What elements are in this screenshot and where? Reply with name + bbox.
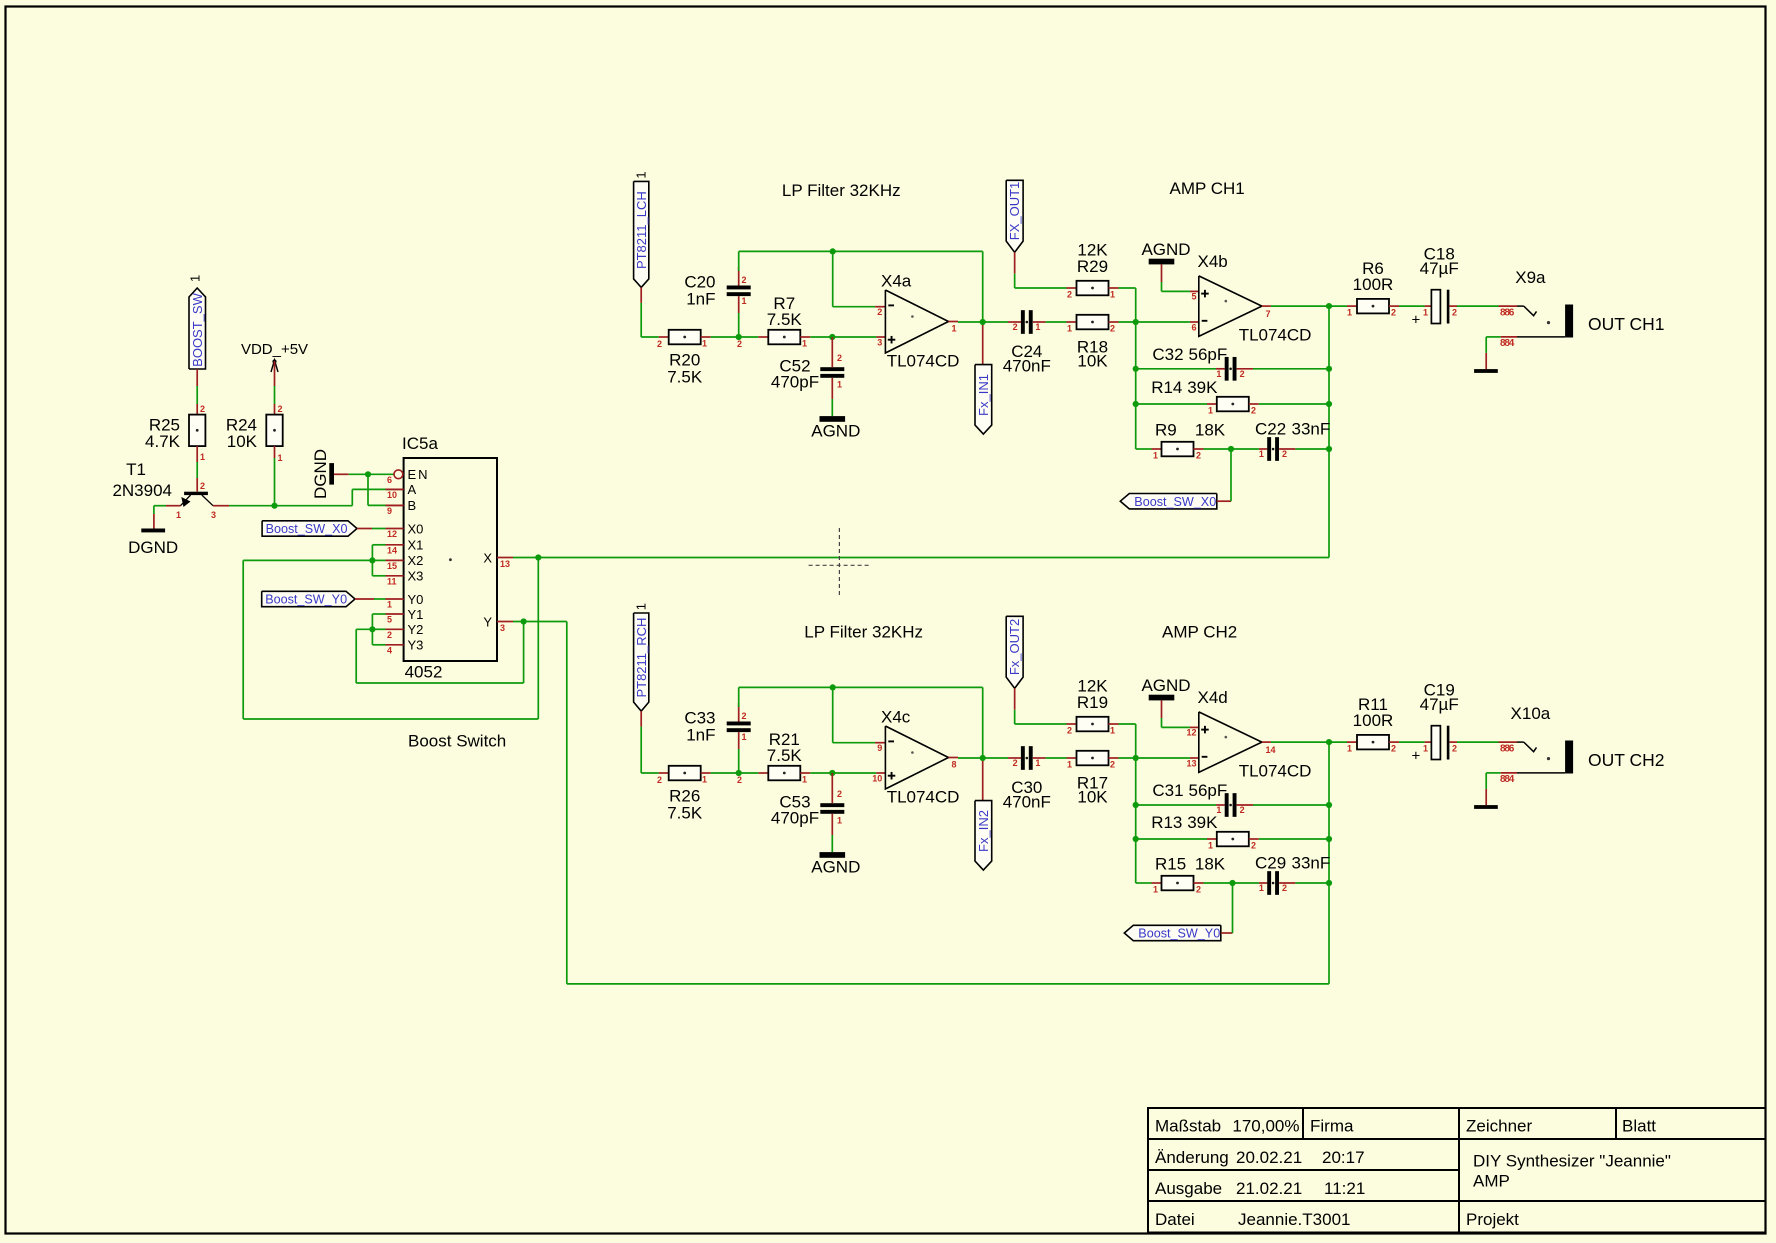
wire boost label — [1217, 500, 1231, 502]
ground DGND (T1) — [141, 529, 165, 533]
junction feedback tap — [830, 248, 836, 254]
svg-text:2: 2 — [737, 339, 742, 349]
svg-text:TL074CD: TL074CD — [887, 352, 960, 371]
wire jack to ground — [1485, 773, 1487, 789]
svg-text:1: 1 — [702, 775, 707, 785]
resistor R14 — [1217, 397, 1249, 412]
row R 18K / C 33nF — [1136, 882, 1152, 884]
title block — [1148, 1108, 1766, 1233]
row C 56pF — [1136, 804, 1216, 806]
svg-text:1: 1 — [1423, 744, 1428, 754]
wire FB left rail — [1135, 322, 1137, 449]
svg-text:2: 2 — [737, 775, 742, 785]
svg-text:12: 12 — [1186, 728, 1196, 738]
wire X2 loop from X output — [243, 559, 372, 561]
junction C52 tap — [829, 334, 835, 340]
svg-text:Y1: Y1 — [408, 607, 424, 622]
svg-text:T1: T1 — [126, 460, 146, 479]
svg-text:DGND: DGND — [311, 449, 330, 499]
svg-text:100R: 100R — [1353, 711, 1394, 730]
svg-text:Maßstab: Maßstab — [1155, 1117, 1221, 1136]
svg-text:2: 2 — [1391, 308, 1396, 318]
svg-text:2: 2 — [1282, 449, 1287, 459]
svg-text:A: A — [408, 482, 417, 497]
junction LP output node — [980, 755, 986, 761]
svg-text:X4a: X4a — [881, 272, 912, 291]
svg-text:R14: R14 — [1151, 378, 1182, 397]
svg-text:Y3: Y3 — [408, 638, 424, 653]
svg-text:AMP CH2: AMP CH2 — [1162, 622, 1237, 641]
jack lower contact — [1486, 336, 1501, 338]
svg-text:3: 3 — [211, 510, 216, 520]
net flag PT8211_RCH — [634, 613, 649, 711]
svg-text:12: 12 — [387, 529, 397, 539]
svg-text:Zeichner: Zeichner — [1466, 1117, 1532, 1136]
junction X2 tie — [369, 557, 375, 563]
svg-text:2: 2 — [200, 481, 205, 491]
svg-text:10K: 10K — [1077, 788, 1108, 807]
svg-text:3: 3 — [500, 623, 505, 633]
wire label to Y0 — [355, 598, 374, 600]
svg-text:Änderung: Änderung — [1155, 1148, 1229, 1167]
svg-text:X10a: X10a — [1511, 704, 1551, 723]
junction boost tap — [1228, 446, 1234, 452]
junction AMP output node — [1326, 739, 1332, 745]
svg-text:2: 2 — [1110, 760, 1115, 770]
wire Y output — [513, 621, 567, 623]
resistor R15 — [1162, 876, 1194, 891]
wire DGND to EN — [334, 473, 349, 475]
svg-text:DGND: DGND — [128, 538, 178, 557]
ground AGND — [820, 416, 846, 422]
svg-text:4: 4 — [387, 645, 392, 655]
svg-text:21.02.21: 21.02.21 — [1236, 1179, 1302, 1198]
svg-text:Boost_SW_X0: Boost_SW_X0 — [266, 522, 348, 536]
resistor R18 — [1077, 315, 1109, 330]
svg-text:1: 1 — [1259, 883, 1264, 893]
svg-text:Boost_SW_Y0: Boost_SW_Y0 — [1138, 927, 1220, 941]
svg-text:C31: C31 — [1152, 781, 1183, 800]
capacitor C24 — [1021, 310, 1025, 334]
svg-text:4.7K: 4.7K — [145, 432, 181, 451]
capacitor C20 — [727, 286, 751, 290]
svg-text:Projekt: Projekt — [1466, 1210, 1519, 1229]
svg-text:X0: X0 — [408, 521, 424, 536]
svg-text:1nF: 1nF — [686, 290, 715, 309]
wire AGND to plus — [1161, 700, 1163, 718]
svg-text:100R: 100R — [1353, 275, 1394, 294]
svg-text:11: 11 — [387, 576, 397, 586]
svg-text:14: 14 — [387, 545, 397, 555]
svg-text:7.5K: 7.5K — [767, 746, 803, 765]
svg-text:VDD_+5V: VDD_+5V — [241, 341, 308, 358]
capacitor C30 — [1021, 746, 1025, 770]
svg-text:1: 1 — [1110, 290, 1115, 300]
svg-text:56pF: 56pF — [1189, 781, 1228, 800]
svg-text:33nF: 33nF — [1292, 420, 1331, 439]
svg-text:2: 2 — [1282, 883, 1287, 893]
op-amp X4c — [885, 726, 948, 789]
op-amp X4d — [1199, 712, 1262, 773]
svg-text:170,00%: 170,00% — [1232, 1117, 1299, 1136]
net label Boost_SW_X0 (boost tap) — [1120, 494, 1217, 509]
wire cap to rail — [738, 267, 740, 286]
wire X1/X2/X3 tie — [371, 545, 373, 576]
wire feedback to minus input — [832, 251, 834, 306]
svg-text:2: 2 — [1067, 726, 1072, 736]
svg-text:EN: EN — [408, 467, 430, 482]
wire opamp1 out — [949, 321, 959, 323]
svg-text:18K: 18K — [1195, 855, 1226, 874]
svg-text:Ausgabe: Ausgabe — [1155, 1179, 1222, 1198]
svg-text:Firma: Firma — [1310, 1117, 1354, 1136]
wire label to X0 — [357, 528, 372, 530]
connector jack X9a — [1499, 305, 1518, 307]
svg-text:+: + — [1412, 748, 1421, 765]
capacitor C18 (polarized) — [1431, 290, 1440, 324]
svg-text:LP Filter 32KHz: LP Filter 32KHz — [782, 181, 901, 200]
svg-text:Boost_SW_Y0: Boost_SW_Y0 — [265, 593, 347, 607]
ground (jack) — [1474, 369, 1498, 373]
net flag Fx_IN2 — [982, 761, 984, 801]
svg-text:2: 2 — [1240, 805, 1245, 815]
row R 39K — [1136, 838, 1207, 840]
net flag Fx_IN1 — [982, 325, 984, 365]
wire EN junction down to B — [367, 474, 369, 505]
svg-text:X3: X3 — [408, 569, 424, 584]
wire Y2 loop from Y output — [356, 628, 372, 630]
svg-text:BOOST_SW: BOOST_SW — [190, 292, 205, 366]
svg-text:DIY Synthesizer "Jeannie": DIY Synthesizer "Jeannie" — [1473, 1152, 1671, 1171]
op-amp X4b — [1199, 276, 1262, 337]
svg-text:5: 5 — [387, 615, 392, 625]
ground AGND — [820, 852, 846, 858]
svg-text:AGND: AGND — [1141, 676, 1190, 695]
connector jack X10a — [1499, 741, 1518, 743]
wire AGND to plus — [1161, 264, 1163, 282]
svg-text:Y0: Y0 — [408, 592, 424, 607]
svg-text:1: 1 — [1347, 744, 1352, 754]
wire T1 emitter to DGND — [166, 505, 181, 507]
wire — [831, 337, 833, 367]
svg-text:1: 1 — [1067, 324, 1072, 334]
svg-text:10: 10 — [872, 773, 882, 783]
svg-text:X1: X1 — [408, 538, 424, 553]
svg-text:B: B — [408, 498, 417, 513]
svg-text:18K: 18K — [1195, 421, 1226, 440]
svg-text:Blatt: Blatt — [1622, 1117, 1656, 1136]
svg-text:2: 2 — [837, 353, 842, 363]
svg-text:Boost_SW_X0: Boost_SW_X0 — [1134, 495, 1216, 509]
resistor R20 — [669, 330, 701, 345]
svg-text:47µF: 47µF — [1420, 259, 1459, 278]
wire R25 to T1 — [196, 446, 198, 462]
wire BOOST_SW to R25 — [196, 369, 198, 386]
net flag BOOST_SW — [189, 288, 206, 369]
svg-text:2: 2 — [1251, 841, 1256, 851]
svg-text:1: 1 — [702, 339, 707, 349]
svg-text:1: 1 — [188, 275, 203, 282]
svg-text:2: 2 — [1391, 744, 1396, 754]
svg-text:R19: R19 — [1077, 693, 1108, 712]
svg-text:2: 2 — [1196, 451, 1201, 461]
svg-text:OUT CH1: OUT CH1 — [1588, 314, 1665, 334]
svg-text:X9a: X9a — [1515, 268, 1546, 287]
svg-text:2: 2 — [877, 307, 882, 317]
wire opamp1 out — [949, 757, 959, 759]
svg-text:R15: R15 — [1155, 855, 1186, 874]
svg-text:13: 13 — [500, 559, 510, 569]
svg-text:Jeannie.T3001: Jeannie.T3001 — [1238, 1210, 1350, 1229]
wire FB right rail — [1328, 306, 1330, 557]
svg-text:470pF: 470pF — [771, 373, 819, 392]
wire feedback to minus input — [832, 687, 834, 742]
svg-text:56pF: 56pF — [1189, 345, 1228, 364]
resistor R7 — [768, 330, 800, 345]
svg-text:C22: C22 — [1255, 420, 1286, 439]
svg-text:13: 13 — [1186, 758, 1196, 768]
wire Y1/Y2/Y3 tie — [371, 614, 373, 645]
wire — [831, 773, 833, 803]
svg-text:1: 1 — [1110, 726, 1115, 736]
capacitor C31 — [1225, 793, 1229, 817]
junction C53 tap — [829, 770, 835, 776]
junction EN/B tie — [365, 471, 371, 477]
svg-text:2: 2 — [1013, 758, 1018, 768]
svg-text:OUT CH2: OUT CH2 — [1588, 750, 1665, 770]
svg-text:Boost Switch: Boost Switch — [408, 732, 506, 751]
ground DGND (IC5a EN) — [329, 463, 334, 485]
svg-text:PT8211_RCH: PT8211_RCH — [634, 618, 649, 698]
svg-text:1: 1 — [634, 171, 649, 178]
junction X branch — [535, 554, 541, 560]
wire boost label — [1221, 932, 1233, 934]
svg-text:470nF: 470nF — [1003, 357, 1051, 376]
capacitor C29 — [1267, 871, 1271, 895]
capacitor C32 — [1225, 357, 1229, 381]
wire — [701, 772, 711, 774]
wire VDD to R24 — [274, 361, 276, 386]
svg-text:20:17: 20:17 — [1322, 1148, 1365, 1167]
svg-text:1: 1 — [200, 452, 205, 462]
svg-text:1: 1 — [802, 775, 807, 785]
svg-text:AMP: AMP — [1473, 1172, 1510, 1191]
svg-text:FX_OUT1: FX_OUT1 — [1007, 182, 1022, 241]
net flag Fx_OUT2 — [1006, 616, 1023, 688]
svg-text:Fx_IN2: Fx_IN2 — [976, 810, 991, 852]
svg-text:5: 5 — [1191, 292, 1196, 302]
svg-text:884: 884 — [1500, 338, 1515, 349]
resistor R19 — [1077, 717, 1109, 732]
svg-text:X2: X2 — [408, 553, 424, 568]
resistor R13 — [1217, 832, 1249, 847]
svg-text:2: 2 — [278, 404, 283, 414]
capacitor C52 — [820, 367, 844, 371]
junction boost tap — [1229, 880, 1235, 886]
capacitor C53 — [820, 803, 844, 807]
svg-text:1: 1 — [742, 296, 747, 306]
svg-text:4052: 4052 — [405, 663, 443, 682]
svg-text:2: 2 — [837, 789, 842, 799]
svg-text:C29: C29 — [1255, 854, 1286, 873]
svg-text:9: 9 — [877, 743, 882, 753]
svg-text:6: 6 — [387, 475, 392, 485]
capacitor C33 — [727, 722, 751, 726]
resistor R6 — [1357, 299, 1389, 314]
svg-text:TL074CD: TL074CD — [887, 788, 960, 807]
svg-text:1: 1 — [1067, 760, 1072, 770]
svg-text:470pF: 470pF — [771, 809, 819, 828]
junction R-top drop — [1133, 319, 1139, 325]
svg-text:TL074CD: TL074CD — [1239, 761, 1312, 780]
svg-text:11:21: 11:21 — [1324, 1179, 1365, 1198]
svg-text:1: 1 — [1208, 406, 1213, 416]
svg-text:2: 2 — [657, 339, 662, 349]
svg-text:PT8211_LCH: PT8211_LCH — [634, 191, 649, 269]
svg-text:884: 884 — [1500, 774, 1515, 785]
wire feedback top rail — [739, 250, 983, 252]
svg-text:6: 6 — [1191, 322, 1196, 332]
svg-text:8: 8 — [952, 760, 957, 770]
wire flag to Rtop — [1014, 252, 1016, 273]
svg-text:2: 2 — [1196, 885, 1201, 895]
row C 56pF — [1136, 368, 1216, 370]
svg-text:TL074CD: TL074CD — [1239, 325, 1312, 344]
junction LP output node — [980, 319, 986, 325]
net flag PT8211_LCH — [634, 181, 649, 287]
row R 39K — [1136, 403, 1207, 405]
svg-text:1: 1 — [1208, 841, 1213, 851]
junction R24/base rail — [271, 503, 277, 509]
ground AGND — [1149, 695, 1175, 701]
svg-text:R13: R13 — [1151, 813, 1182, 832]
svg-text:886: 886 — [1500, 743, 1515, 754]
row R 18K / C 33nF — [1136, 448, 1152, 450]
svg-text:X: X — [483, 551, 492, 566]
svg-text:1: 1 — [802, 339, 807, 349]
svg-text:1: 1 — [1153, 451, 1158, 461]
op-amp X4a — [885, 290, 948, 353]
wire PT8211_RCH down to rail — [640, 711, 642, 727]
svg-text:1: 1 — [634, 603, 649, 610]
net label Boost_SW_Y0 (to IC5a Y0) — [262, 591, 355, 606]
junction C33 tap — [736, 770, 742, 776]
wire flag to Rtop — [1014, 688, 1016, 709]
svg-text:7.5K: 7.5K — [667, 804, 703, 823]
svg-text:39K: 39K — [1187, 813, 1218, 832]
resistor R29 — [1077, 281, 1109, 296]
svg-text:7.5K: 7.5K — [767, 310, 803, 329]
ground (jack) — [1474, 805, 1498, 809]
resistor R26 — [669, 766, 701, 781]
resistor R9 — [1162, 442, 1194, 457]
svg-text:20.02.21: 20.02.21 — [1236, 1148, 1302, 1167]
svg-text:1: 1 — [387, 600, 392, 610]
svg-text:AGND: AGND — [811, 421, 860, 440]
svg-text:39K: 39K — [1187, 378, 1218, 397]
resistor R21 — [768, 766, 800, 781]
svg-text:AGND: AGND — [1141, 240, 1190, 259]
svg-text:1nF: 1nF — [686, 726, 715, 745]
wire cap to rail — [738, 703, 740, 722]
junction C20 tap — [736, 334, 742, 340]
svg-text:2: 2 — [200, 404, 205, 414]
svg-text:2: 2 — [1013, 322, 1018, 332]
IC U IC5a 4052 — [404, 458, 497, 661]
wire feedback top rail — [739, 686, 983, 688]
svg-text:2: 2 — [657, 775, 662, 785]
svg-text:X4b: X4b — [1198, 252, 1228, 271]
svg-text:1: 1 — [1423, 308, 1428, 318]
svg-text:15: 15 — [387, 561, 397, 571]
svg-text:14: 14 — [1266, 745, 1276, 755]
svg-text:1: 1 — [1153, 885, 1158, 895]
net label Boost_SW_X0 (to IC5a X0) — [262, 521, 357, 536]
wire — [701, 336, 711, 338]
svg-text:1: 1 — [1259, 449, 1264, 459]
svg-text:2: 2 — [1240, 369, 1245, 379]
junction feedback tap — [830, 684, 836, 690]
svg-text:R9: R9 — [1155, 421, 1177, 440]
svg-text:3: 3 — [877, 337, 882, 347]
resistor R17 — [1077, 751, 1109, 766]
svg-text:9: 9 — [387, 506, 392, 516]
svg-text:2: 2 — [742, 275, 747, 285]
svg-text:1: 1 — [742, 732, 747, 742]
net flag FX_OUT1 — [1006, 180, 1023, 252]
svg-text:10K: 10K — [1077, 352, 1108, 371]
svg-text:10K: 10K — [227, 432, 258, 451]
wire FB left rail — [1135, 758, 1137, 883]
wire opamp2 out — [1262, 741, 1271, 743]
wire jack to ground — [1485, 337, 1487, 353]
svg-text:886: 886 — [1500, 307, 1515, 318]
net label Boost_SW_Y0 (boost tap) — [1124, 925, 1221, 940]
wire T1 right to IC5a A — [213, 505, 229, 507]
wire FB right rail — [1328, 742, 1330, 984]
svg-text:10: 10 — [387, 490, 397, 500]
capacitor C19 (polarized) — [1431, 726, 1440, 760]
svg-text:IC5a: IC5a — [402, 434, 438, 453]
svg-text:47µF: 47µF — [1420, 695, 1459, 714]
svg-text:2: 2 — [387, 630, 392, 640]
svg-text:Fx_OUT2: Fx_OUT2 — [1007, 619, 1022, 675]
svg-text:X4c: X4c — [881, 708, 911, 727]
resistor R24 — [266, 415, 282, 447]
svg-text:2: 2 — [742, 711, 747, 721]
svg-text:1: 1 — [176, 510, 181, 520]
svg-text:33nF: 33nF — [1292, 854, 1331, 873]
resistor R11 — [1357, 735, 1389, 750]
svg-text:2: 2 — [1110, 324, 1115, 334]
svg-text:+: + — [1412, 312, 1421, 329]
svg-text:Y2: Y2 — [408, 622, 424, 637]
capacitor C22 — [1267, 437, 1271, 461]
wire PT8211_LCH down to rail — [640, 287, 642, 303]
svg-text:2: 2 — [1452, 308, 1457, 318]
svg-text:2N3904: 2N3904 — [112, 481, 172, 500]
sheet center mark — [809, 528, 871, 597]
svg-text:2: 2 — [1251, 406, 1256, 416]
svg-text:2: 2 — [1067, 290, 1072, 300]
svg-text:7: 7 — [1266, 309, 1271, 319]
junction R-top drop — [1133, 755, 1139, 761]
junction Y branch — [521, 618, 527, 624]
wire opamp2 out — [1262, 305, 1271, 307]
svg-text:Y: Y — [483, 615, 492, 630]
ground AGND — [1149, 259, 1175, 265]
resistor R25 — [189, 415, 205, 447]
